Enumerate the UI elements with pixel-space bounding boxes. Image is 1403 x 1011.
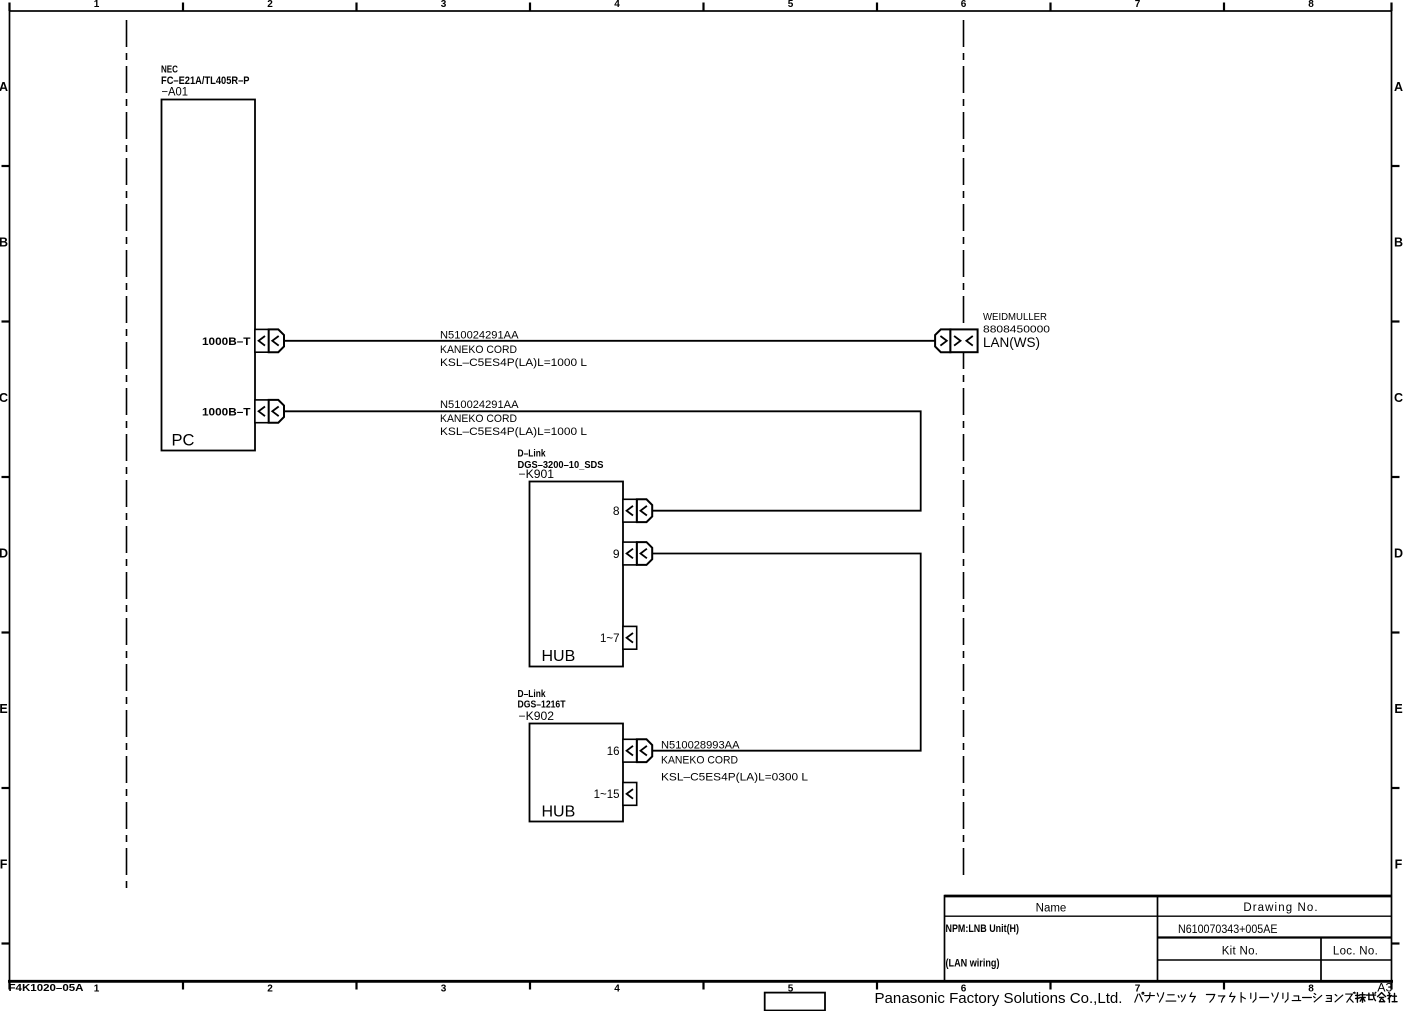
- svg-text:E: E: [0, 702, 8, 716]
- svg-text:8: 8: [613, 504, 620, 518]
- HUB -K902 (D-Link DGS-1216T): [518, 689, 624, 822]
- svg-text:E: E: [1394, 702, 1402, 716]
- svg-text:3: 3: [441, 984, 447, 995]
- svg-text:KANEKO CORD: KANEKO CORD: [440, 413, 517, 425]
- svg-text:KANEKO CORD: KANEKO CORD: [440, 344, 517, 356]
- svg-text:LAN(WS): LAN(WS): [983, 334, 1040, 350]
- svg-text:Kit No.: Kit No.: [1222, 946, 1259, 958]
- svg-text:(LAN wiring): (LAN wiring): [946, 958, 1000, 970]
- wire cable N510024291AA : PC 1000B-T upper to LAN(WS): [284, 340, 936, 342]
- svg-text:9: 9: [613, 547, 620, 561]
- svg-text:Loc. No.: Loc. No.: [1333, 946, 1378, 958]
- HUB -K901 (D-Link DGS-3200-10_SDS): [518, 449, 624, 667]
- svg-text:1~15: 1~15: [594, 789, 620, 801]
- svg-text:NPM:LNB Unit(H): NPM:LNB Unit(H): [946, 923, 1020, 935]
- svg-text:B: B: [1394, 236, 1403, 250]
- wire cable N510024291AA : PC 1000B-T lower to HUB K901 port 8: [284, 411, 921, 510]
- svg-text:2: 2: [267, 0, 273, 10]
- svg-text:2: 2: [267, 984, 273, 995]
- svg-text:Panasonic Factory Solutions Co: Panasonic Factory Solutions Co.,Ltd.: [875, 991, 1123, 1007]
- cable label N510024291AA KANEKO CORD KSL-C5ES4P(LA)L=1000 L: [440, 329, 587, 368]
- svg-text:KSL–C5ES4P(LA)L=1000 L: KSL–C5ES4P(LA)L=1000 L: [440, 357, 587, 369]
- svg-text:3: 3: [441, 0, 447, 10]
- svg-text:F: F: [0, 858, 8, 872]
- HUB K901 ports 1~7 socket: [600, 626, 637, 649]
- svg-text:6: 6: [961, 0, 967, 10]
- svg-text:16: 16: [607, 746, 620, 758]
- svg-text:4: 4: [614, 984, 620, 995]
- cable label N510028993AA KANEKO CORD KSL-C5ES4P(LA)L=0300 L: [661, 739, 808, 783]
- svg-text:D: D: [1394, 547, 1403, 561]
- svg-text:C: C: [0, 391, 8, 405]
- svg-text:C: C: [1394, 391, 1403, 405]
- svg-text:B: B: [0, 236, 8, 250]
- svg-text:N510028993AA: N510028993AA: [661, 739, 740, 751]
- svg-text:1~7: 1~7: [600, 633, 620, 645]
- svg-text:−A01: −A01: [162, 87, 189, 99]
- cable label N510024291AA KANEKO CORD KSL-C5ES4P(LA)L=1000 L: [440, 399, 587, 438]
- svg-text:Drawing No.: Drawing No.: [1243, 902, 1318, 914]
- svg-text:N510024291AA: N510024291AA: [440, 329, 519, 341]
- HUB K902 ports 1~15 socket: [594, 783, 637, 806]
- svg-text:−K902: −K902: [519, 711, 555, 723]
- svg-text:F4K1020–05A: F4K1020–05A: [9, 982, 84, 994]
- PC port 1000B-T (lower) with connector pair: [202, 400, 284, 423]
- title block: [945, 895, 1392, 981]
- svg-text:N510024291AA: N510024291AA: [440, 399, 519, 411]
- svg-text:1: 1: [94, 984, 100, 995]
- svg-text:NEC: NEC: [161, 65, 178, 76]
- svg-text:HUB: HUB: [542, 648, 576, 665]
- HUB K901 port 9 connector pair: [613, 542, 652, 565]
- svg-text:DGS–1216T: DGS–1216T: [518, 698, 566, 710]
- svg-text:1000B–T: 1000B–T: [202, 336, 251, 348]
- svg-text:D: D: [0, 547, 8, 561]
- PC unit -A01 (NEC FC-E21A/TL405R-P): [161, 65, 255, 451]
- wire cable N510028993AA : HUB K901 port 9 to HUB K902 port 16: [652, 554, 921, 751]
- svg-text:KSL–C5ES4P(LA)L=0300 L: KSL–C5ES4P(LA)L=0300 L: [661, 772, 808, 784]
- company name (Japanese) drawn as strokes: [1135, 992, 1397, 1002]
- svg-text:Name: Name: [1036, 903, 1067, 915]
- svg-text:FC–E21A/TL405R–P: FC–E21A/TL405R–P: [161, 75, 250, 87]
- svg-text:A: A: [1394, 80, 1403, 94]
- LAN(WS) wall connector WEIDMULLER 8808450000: [935, 311, 1050, 352]
- svg-text:A: A: [0, 80, 8, 94]
- svg-text:7: 7: [1135, 0, 1141, 10]
- PC port 1000B-T (upper) with connector pair: [202, 329, 284, 352]
- svg-text:1000B–T: 1000B–T: [202, 407, 251, 419]
- svg-text:F: F: [1395, 858, 1403, 872]
- svg-text:N610070343+005AE: N610070343+005AE: [1178, 922, 1278, 936]
- svg-text:−K901: −K901: [519, 469, 555, 481]
- boundary chain line (left station boundary): [126, 20, 128, 893]
- svg-text:KSL–C5ES4P(LA)L=1000 L: KSL–C5ES4P(LA)L=1000 L: [440, 426, 587, 438]
- boundary chain line (right station boundary): [963, 20, 965, 879]
- svg-text:8: 8: [1308, 984, 1314, 995]
- svg-text:HUB: HUB: [542, 804, 576, 821]
- svg-text:1: 1: [94, 0, 100, 10]
- svg-text:A3: A3: [1377, 981, 1392, 995]
- HUB K901 port 8 connector pair: [613, 499, 652, 522]
- svg-text:PC: PC: [172, 432, 195, 450]
- svg-text:7: 7: [1135, 984, 1141, 995]
- svg-text:8: 8: [1308, 0, 1314, 10]
- revision box (empty): [765, 993, 825, 1011]
- svg-text:5: 5: [788, 0, 794, 10]
- svg-text:4: 4: [614, 0, 620, 10]
- svg-text:WEIDMULLER: WEIDMULLER: [983, 311, 1047, 323]
- svg-text:KANEKO CORD: KANEKO CORD: [661, 754, 738, 766]
- HUB K902 port 16 connector pair: [607, 739, 652, 762]
